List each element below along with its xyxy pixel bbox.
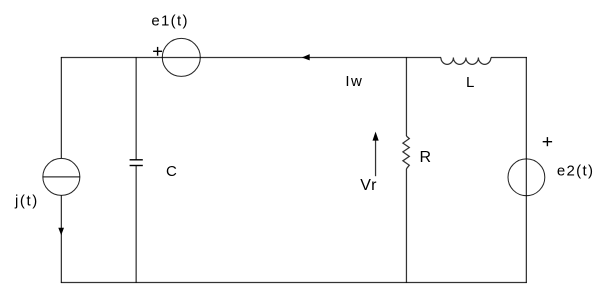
capacitor C	[130, 160, 177, 180]
wire left vertical upper	[60, 57, 62, 159]
wire resistor branch lower	[405, 169, 407, 283]
current direction arrowhead on j(t) branch	[58, 228, 64, 235]
svg-text:j(t): j(t)	[14, 193, 39, 210]
svg-text:Vr: Vr	[360, 177, 377, 194]
voltage source e2	[508, 137, 594, 196]
wire right vertical	[525, 57, 527, 283]
svg-text:Iw: Iw	[345, 73, 363, 90]
wire top horizontal (left corner to inductor)	[61, 56, 441, 58]
current source j(t)	[14, 158, 80, 209]
svg-text:e2(t): e2(t)	[557, 163, 594, 180]
wire resistor branch upper	[405, 57, 407, 136]
wire capacitor branch lower	[135, 166, 137, 283]
inductor L	[441, 57, 491, 91]
voltage arrow Vr	[360, 132, 378, 194]
current arrow Iw on top wire	[302, 54, 364, 90]
wire left vertical lower	[60, 195, 62, 283]
svg-text:R: R	[420, 149, 432, 166]
svg-text:e1(t): e1(t)	[151, 12, 188, 29]
svg-text:C: C	[166, 163, 177, 180]
wire capacitor branch upper	[135, 57, 137, 160]
svg-text:L: L	[466, 74, 474, 91]
wire inductor to top-right corner	[491, 56, 527, 58]
resistor R	[403, 136, 431, 169]
wire bottom horizontal	[61, 281, 527, 283]
voltage source e1	[151, 12, 200, 76]
